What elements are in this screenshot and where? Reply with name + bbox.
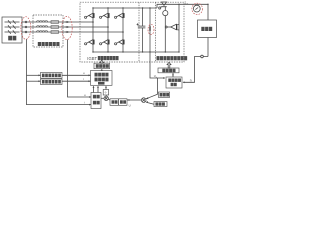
regulator input wire: [127, 99, 141, 108]
motor box 电动机: [198, 20, 217, 38]
DC-link capacitor branch: [137, 7, 146, 52]
rectifier drive circuit box: [94, 60, 110, 68]
grid-side voltage/current sensors, red highlight: [21, 17, 31, 40]
speed feedback wire n: [183, 55, 209, 83]
Ud reference box: [159, 92, 170, 98]
chopper transistor T8: [165, 24, 179, 30]
rectifier leg 2 with IGBT pair: [100, 7, 110, 52]
inverter controller box: [166, 73, 182, 88]
filter inductor: [37, 21, 48, 22]
speed encoder on motor shaft: [207, 38, 209, 57]
DC+ rail: [93, 7, 157, 9]
braking resistor branch: [163, 7, 168, 53]
speed reference box: [146, 101, 167, 106]
inverter drive circuit box: [158, 62, 179, 72]
LRC filter dashed box: [33, 15, 63, 47]
DC-bus sense element, red highlight: [148, 7, 154, 52]
output current sensor, red highlight: [192, 3, 203, 14]
Ud feedback branch into summer: [146, 78, 158, 99]
svg-text:d: d: [156, 77, 157, 79]
rectifier controller box: [91, 69, 113, 85]
multiplier node: [101, 95, 110, 101]
regulator box pair: [110, 99, 127, 106]
svg-text:U: U: [129, 104, 131, 108]
us signal wire: [62, 71, 91, 76]
filter inductor: [37, 26, 48, 27]
filter resistor: [51, 21, 59, 24]
wire from line sensors to power calc: [68, 40, 92, 98]
Ud sense wire to controller: [150, 52, 165, 79]
rectifier leg 3 with IGBT pair: [115, 7, 125, 52]
label: PWM inverter main circuit: [157, 56, 188, 60]
power calculation box: [91, 86, 101, 109]
converter main-circuit dashed enclosure: [80, 2, 184, 62]
chopper transistor T7: [159, 2, 167, 9]
wire phase B: [22, 26, 108, 28]
wire to motor with reactor label L: [179, 1, 209, 20]
wire from grid sensors to detectors and power calc: [27, 39, 92, 105]
grid source box 电网: [2, 17, 22, 43]
summing node: [141, 98, 146, 103]
svg-text:n: n: [190, 78, 192, 82]
filter resistor: [51, 26, 59, 29]
current detection box: [41, 79, 63, 85]
converter-input sensors, red highlight: [62, 16, 72, 39]
voltage detection box: [41, 73, 63, 79]
is signal wire: [62, 77, 91, 82]
filter inductor: [37, 31, 48, 32]
wire phase C: [22, 31, 123, 33]
svg-text:IGBT: IGBT: [87, 56, 97, 61]
chopper rail step: [157, 4, 179, 8]
rectifier leg 1 with IGBT pair: [85, 7, 95, 52]
label: IGBT rectifier main circuit: [87, 56, 118, 61]
chopper output leg: [178, 4, 179, 53]
wire phase A: [22, 21, 93, 23]
filter resistor: [51, 31, 59, 34]
DC- rail: [93, 51, 179, 53]
divider box: [103, 86, 109, 95]
